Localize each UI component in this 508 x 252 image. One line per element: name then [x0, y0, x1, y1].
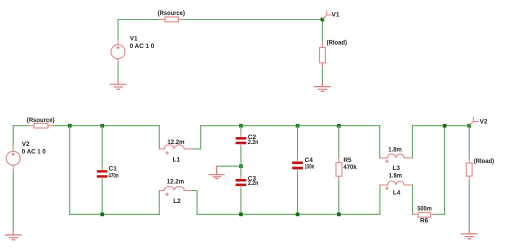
wire: top rail left segment — [118, 19, 160, 21]
wire: top rail right segment — [184, 19, 322, 21]
wire: C2 to mid node — [240, 148, 242, 167]
ground (below Rload top) — [314, 82, 331, 92]
wire: top rail L1 to L3 — [201, 125, 380, 127]
svg-text:{Rsource}: {Rsource} — [158, 10, 186, 17]
wire: C3 column lower — [240, 190, 242, 215]
wire: input riser down to bottom rail — [69, 126, 71, 215]
svg-text:V2: V2 — [22, 141, 30, 148]
capacitor C2 — [236, 134, 247, 147]
svg-text:V1: V1 — [332, 12, 340, 19]
svg-text:2.2n: 2.2n — [248, 139, 259, 146]
svg-text:0 AC 1 0: 0 AC 1 0 — [22, 149, 46, 156]
voltage source V1 — [111, 40, 125, 64]
wire: R6 to right riser — [436, 213, 445, 215]
wire: L3 right riser — [411, 126, 413, 158]
wire: mid node to ground stub — [217, 165, 241, 167]
wire: L3 left riser — [379, 126, 381, 158]
phase dot L1 — [166, 152, 168, 154]
junction: node V2 — [467, 124, 471, 128]
wire: bottom-circuit top rail, V2 corner to Rsource — [13, 125, 28, 127]
wire: node V1 down to Rload — [321, 20, 323, 43]
inductor L3 — [380, 154, 413, 158]
svg-text:L4: L4 — [393, 190, 401, 197]
junction: C2 top — [239, 124, 243, 128]
wire: C2 column upper — [240, 126, 242, 135]
wire: node V2 down to Rload — [468, 126, 470, 159]
voltage source V2 — [6, 147, 20, 173]
svg-text:R5: R5 — [343, 157, 352, 164]
junction: mid node (C2/C3) — [239, 164, 243, 168]
svg-text:500m: 500m — [417, 206, 432, 213]
svg-text:0 AC 1 0: 0 AC 1 0 — [130, 43, 155, 50]
wire: C4 column upper — [297, 126, 299, 159]
wire: top rail from Rsource to L1 — [54, 125, 160, 127]
resistor Rsource (bottom, horizontal) — [29, 123, 54, 128]
svg-text:1.8m: 1.8m — [388, 147, 402, 154]
wire: right return riser — [444, 126, 446, 215]
svg-text:1.8m: 1.8m — [389, 173, 403, 180]
wire: C4 column lower — [297, 173, 299, 215]
inductor L2 — [159, 186, 192, 190]
junction: C4 bottom — [296, 213, 300, 217]
wire: R5 column lower — [338, 181, 340, 214]
svg-text:V2: V2 — [480, 118, 488, 125]
capacitor C3 — [236, 176, 247, 189]
wire: V2 up to bottom-circuit top rail — [12, 126, 14, 147]
svg-text:C1: C1 — [109, 165, 118, 172]
junction: C4 top — [296, 124, 300, 128]
wire: mid node to C3 — [240, 166, 242, 176]
inductor L1 — [159, 145, 192, 149]
svg-text:(Rload): (Rload) — [327, 39, 347, 46]
svg-text:12.2m: 12.2m — [167, 139, 184, 146]
ground (below V1) — [110, 79, 127, 89]
resistor R5 (vertical) — [336, 157, 342, 181]
junction: R5 top — [337, 124, 341, 128]
ground (below V2) — [5, 230, 22, 240]
wire: R5 column upper — [338, 126, 340, 158]
wire: L2 right riser — [192, 191, 197, 215]
phase dot L4 — [386, 187, 388, 189]
wire: L4 left riser — [379, 185, 381, 214]
wire: bottom rail left segment — [70, 213, 160, 215]
junction: node after Rsource (input riser) — [68, 124, 72, 128]
junction: C1 bottom — [100, 213, 104, 217]
inductor L4 — [380, 181, 413, 185]
wire: bottom rail L2 to L4 — [197, 213, 380, 215]
svg-text:470n: 470n — [108, 173, 118, 180]
svg-text:2.2n: 2.2n — [248, 180, 259, 187]
phase dot L2 — [166, 193, 168, 195]
svg-text:12.2m: 12.2m — [167, 178, 185, 185]
svg-text:L1: L1 — [173, 157, 181, 164]
phase dot L3 — [386, 160, 388, 162]
svg-text:(Rload): (Rload) — [474, 158, 494, 165]
junction: right riser at top rail — [443, 124, 447, 128]
svg-text:{Rsource}: {Rsource} — [27, 117, 56, 124]
net flag V2 — [470, 118, 479, 126]
wire: L4 right riser — [412, 185, 414, 214]
resistor Rsource (top, horizontal) — [160, 17, 185, 22]
resistor Rload (top, vertical) — [320, 43, 326, 69]
svg-text:L3: L3 — [393, 165, 401, 172]
wire: Rload to ground — [321, 68, 323, 81]
ground (mid node) — [209, 166, 225, 178]
svg-text:150n: 150n — [305, 164, 315, 171]
wire: Rload to ground (bottom) — [468, 181, 470, 229]
junction: C1 top — [100, 124, 104, 128]
wire: V2 to ground — [12, 173, 14, 230]
wire: V1 to ground — [117, 64, 119, 79]
net flag V1 — [323, 11, 333, 19]
svg-text:V1: V1 — [130, 36, 138, 43]
junction: C3 bottom — [239, 213, 243, 217]
svg-text:L2: L2 — [173, 198, 181, 205]
capacitor C1 — [97, 167, 108, 181]
wire: top circuit, V1 up to rail — [117, 20, 119, 41]
wire: L1 right riser — [192, 126, 200, 149]
resistor Rload (bottom, vertical) — [466, 158, 472, 181]
capacitor C4 — [292, 159, 303, 173]
wire: C1 column lower — [101, 181, 103, 214]
wire: L1 left riser — [158, 126, 160, 149]
svg-text:470k: 470k — [343, 164, 357, 171]
ground (below Rload bottom) — [461, 229, 478, 239]
wire: C1 column upper — [101, 126, 103, 168]
junction node V1 — [321, 18, 325, 22]
wire: top rail L3 to node V2 — [412, 125, 469, 127]
junction: R5 bottom — [337, 213, 341, 217]
wire: L2 left riser — [158, 191, 160, 215]
resistor R6 (horizontal) — [413, 212, 436, 217]
svg-text:R6: R6 — [420, 217, 429, 224]
